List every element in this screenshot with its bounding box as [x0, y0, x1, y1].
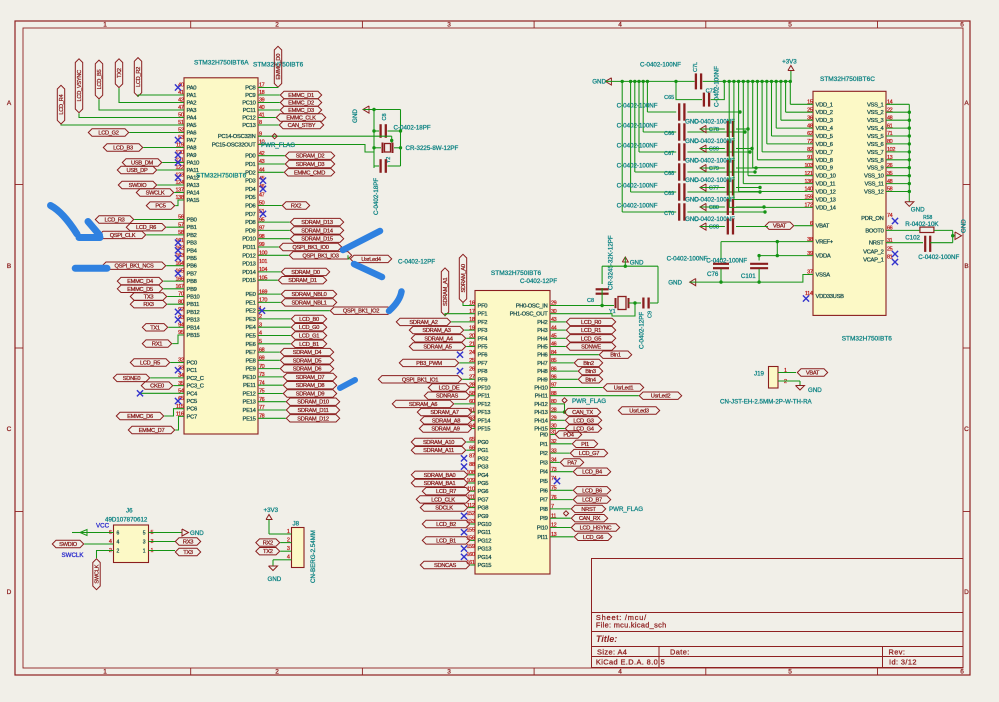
- svg-text:VSS_3: VSS_3: [867, 118, 884, 124]
- svg-text:PDR_ON: PDR_ON: [861, 216, 883, 222]
- svg-text:PI11: PI11: [537, 535, 547, 541]
- svg-text:EMMC_D2: EMMC_D2: [288, 101, 314, 107]
- svg-text:PA7: PA7: [187, 138, 197, 144]
- svg-text:3: 3: [287, 546, 290, 552]
- svg-text:A: A: [964, 100, 969, 107]
- svg-text:PA3: PA3: [187, 108, 197, 114]
- svg-text:SDRAM_A2: SDRAM_A2: [409, 320, 437, 326]
- svg-text:Btn1: Btn1: [610, 353, 621, 359]
- svg-text:PD15: PD15: [242, 278, 255, 284]
- svg-text:5: 5: [143, 531, 146, 537]
- svg-text:Y1: Y1: [609, 309, 616, 315]
- svg-text:PF4: PF4: [478, 336, 489, 342]
- svg-text:PB3_PWM: PB3_PWM: [416, 361, 442, 367]
- svg-text:GND: GND: [190, 530, 204, 537]
- svg-text:PH11: PH11: [535, 394, 548, 400]
- svg-text:PD10: PD10: [242, 237, 255, 243]
- svg-text:LCD_R5: LCD_R5: [140, 361, 160, 367]
- svg-text:PB10: PB10: [187, 295, 200, 301]
- svg-text:PA2: PA2: [187, 101, 197, 107]
- svg-text:C: C: [7, 426, 12, 433]
- svg-text:2: 2: [784, 379, 787, 385]
- svg-text:STM32H750IBT6C: STM32H750IBT6C: [820, 76, 875, 83]
- svg-text:PF6: PF6: [478, 353, 488, 359]
- svg-text:LCD_B6: LCD_B6: [582, 488, 602, 494]
- svg-text:PG14: PG14: [478, 555, 493, 561]
- svg-text:PC15-OSC32OUT: PC15-OSC32OUT: [212, 143, 257, 149]
- svg-text:VSS_1: VSS_1: [867, 102, 884, 108]
- svg-text:87: 87: [469, 454, 475, 460]
- svg-text:PF11: PF11: [478, 394, 490, 400]
- svg-text:PB7: PB7: [187, 271, 197, 277]
- svg-text:PC14-OSC32IN: PC14-OSC32IN: [218, 134, 256, 140]
- svg-text:PH1-OSC_OUT: PH1-OSC_OUT: [510, 312, 549, 318]
- svg-text:EMMC_D5: EMMC_D5: [127, 287, 153, 293]
- svg-text:PD1: PD1: [245, 162, 255, 168]
- svg-text:PA4: PA4: [187, 116, 198, 122]
- svg-text:PH0-OSC_IN: PH0-OSC_IN: [516, 304, 548, 310]
- svg-text:UsrLed4: UsrLed4: [361, 257, 381, 263]
- svg-text:PC3_C: PC3_C: [187, 384, 204, 390]
- svg-text:PD0: PD0: [245, 154, 255, 160]
- svg-text:PD14: PD14: [242, 270, 256, 276]
- svg-text:SDRAM_D6: SDRAM_D6: [293, 367, 322, 373]
- svg-text:USB_DM: USB_DM: [131, 161, 153, 167]
- svg-text:SDNWE: SDNWE: [581, 345, 601, 351]
- svg-text:PA10: PA10: [187, 161, 200, 167]
- svg-text:SDRAM_A6: SDRAM_A6: [409, 402, 437, 408]
- svg-text:LCD_B5: LCD_B5: [97, 70, 103, 90]
- svg-text:PB3: PB3: [187, 241, 197, 247]
- svg-text:KiCad E.D.A. 8.0.5: KiCad E.D.A. 8.0.5: [596, 657, 665, 666]
- svg-text:LCD_B7: LCD_B7: [582, 498, 602, 504]
- svg-text:C-0402-100NF: C-0402-100NF: [617, 163, 658, 170]
- svg-text:PG0: PG0: [478, 440, 489, 446]
- svg-text:C79: C79: [709, 166, 719, 172]
- svg-text:VSS_9: VSS_9: [867, 166, 884, 172]
- svg-text:VDD33USB: VDD33USB: [816, 294, 845, 300]
- svg-text:C9: C9: [648, 311, 654, 318]
- svg-text:CR-3225-8W-12PF: CR-3225-8W-12PF: [406, 145, 459, 152]
- svg-text:SDRAM_BA1: SDRAM_BA1: [424, 481, 456, 487]
- svg-text:2: 2: [275, 22, 279, 29]
- svg-text:49D107870612: 49D107870612: [105, 517, 148, 524]
- svg-text:PB2: PB2: [187, 233, 197, 239]
- svg-text:C68: C68: [664, 171, 674, 177]
- svg-text:PE8: PE8: [245, 358, 255, 364]
- svg-text:VDD_11: VDD_11: [816, 182, 836, 188]
- svg-text:LCD_R4: LCD_R4: [59, 95, 65, 115]
- svg-text:LCD_B1: LCD_B1: [299, 342, 319, 348]
- svg-text:PD8: PD8: [245, 220, 255, 226]
- svg-text:PH8: PH8: [537, 369, 547, 375]
- svg-text:6: 6: [117, 531, 120, 537]
- svg-text:PE7: PE7: [245, 350, 255, 356]
- svg-text:PE15: PE15: [243, 416, 256, 422]
- svg-text:Btn4: Btn4: [585, 377, 596, 383]
- svg-text:NRST: NRST: [869, 241, 884, 247]
- svg-text:PI0: PI0: [540, 433, 548, 439]
- svg-text:C-0402-100NF: C-0402-100NF: [617, 203, 658, 210]
- svg-text:PH12: PH12: [534, 402, 547, 408]
- svg-text:VSS_6: VSS_6: [867, 142, 884, 148]
- svg-text:PA14: PA14: [187, 191, 201, 197]
- svg-text:GND: GND: [808, 387, 822, 394]
- svg-text:LCD_VSYNC: LCD_VSYNC: [77, 70, 83, 102]
- svg-text:SDRAM_NBL1: SDRAM_NBL1: [292, 300, 327, 306]
- svg-text:SDRAM_A0: SDRAM_A0: [461, 264, 467, 292]
- svg-text:PI3: PI3: [540, 460, 548, 466]
- svg-text:C-0402-12PF: C-0402-12PF: [639, 312, 646, 349]
- svg-text:PE6: PE6: [245, 342, 255, 348]
- svg-text:PG4: PG4: [478, 473, 490, 479]
- svg-text:PG9: PG9: [478, 514, 489, 520]
- svg-text:SDNCAS: SDNCAS: [434, 563, 456, 569]
- svg-text:VSS_4: VSS_4: [867, 126, 885, 132]
- svg-text:PG3: PG3: [478, 465, 489, 471]
- svg-text:GND: GND: [352, 109, 359, 123]
- svg-text:CR-3245-32K-12PF: CR-3245-32K-12PF: [608, 235, 615, 290]
- svg-text:PI1: PI1: [581, 442, 589, 448]
- svg-text:PI6: PI6: [540, 488, 548, 494]
- svg-text:EMMC_D4: EMMC_D4: [127, 279, 153, 285]
- svg-text:5: 5: [788, 669, 792, 676]
- svg-text:1: 1: [103, 22, 107, 29]
- svg-text:UsrLed1: UsrLed1: [614, 386, 634, 392]
- svg-text:B: B: [964, 263, 968, 270]
- svg-text:101: 101: [259, 259, 267, 265]
- svg-text:VSS_2: VSS_2: [867, 110, 884, 116]
- svg-text:PA0: PA0: [187, 86, 197, 92]
- svg-text:PD13: PD13: [242, 262, 255, 268]
- svg-text:SDRAM_D10: SDRAM_D10: [297, 400, 329, 406]
- svg-text:PG13: PG13: [478, 547, 492, 553]
- svg-text:C-0402-100NF: C-0402-100NF: [667, 256, 708, 263]
- svg-text:QSPI_BK1_IO1: QSPI_BK1_IO1: [402, 377, 438, 383]
- svg-text:155: 155: [467, 527, 475, 533]
- svg-text:PB9: PB9: [187, 287, 197, 293]
- svg-text:3: 3: [143, 540, 146, 546]
- svg-text:C-0402-100NF: C-0402-100NF: [714, 66, 721, 107]
- svg-text:PB1: PB1: [187, 225, 197, 231]
- svg-text:LCD_CLK: LCD_CLK: [431, 497, 455, 503]
- svg-text:PB8: PB8: [187, 279, 197, 285]
- svg-text:1: 1: [143, 549, 146, 555]
- svg-text:CN-JST-EH-2.5MM-2P-W-TH-RA: CN-JST-EH-2.5MM-2P-W-TH-RA: [720, 399, 813, 406]
- svg-text:4: 4: [117, 540, 120, 546]
- svg-text:SDRAM_D4: SDRAM_D4: [293, 350, 322, 356]
- svg-text:SDCLK: SDCLK: [435, 506, 453, 512]
- svg-text:VDD_6: VDD_6: [816, 142, 833, 148]
- svg-text:TX2: TX2: [117, 68, 123, 78]
- svg-text:PD6: PD6: [245, 204, 255, 210]
- svg-text:TX3: TX3: [183, 550, 193, 556]
- svg-text:STM32H750IBT6: STM32H750IBT6: [842, 336, 893, 343]
- svg-text:GND: GND: [911, 207, 925, 214]
- svg-text:159: 159: [467, 544, 475, 550]
- svg-text:PF15: PF15: [478, 427, 491, 433]
- svg-text:PA5: PA5: [187, 123, 197, 129]
- svg-text:PE3: PE3: [245, 317, 255, 323]
- svg-text:C-0402-100NF: C-0402-100NF: [694, 216, 735, 223]
- svg-text:PF8: PF8: [478, 369, 488, 375]
- svg-text:SDRAM_D13: SDRAM_D13: [301, 220, 333, 226]
- svg-text:PWR_FLAG: PWR_FLAG: [261, 142, 295, 149]
- svg-text:VCC: VCC: [96, 523, 110, 530]
- svg-text:PF13: PF13: [478, 410, 491, 416]
- svg-text:LCD_G1: LCD_G1: [299, 334, 319, 340]
- svg-text:PI9: PI9: [540, 516, 548, 522]
- svg-text:LCD_G6: LCD_G6: [583, 535, 603, 541]
- svg-text:Date:: Date:: [670, 648, 690, 657]
- svg-text:TX2: TX2: [263, 549, 273, 555]
- svg-text:GND: GND: [668, 279, 682, 286]
- svg-text:D: D: [964, 589, 969, 596]
- svg-text:LCD_R2: LCD_R2: [136, 67, 142, 87]
- svg-text:PF2: PF2: [478, 320, 488, 326]
- svg-text:QSPI_BK1_NCS: QSPI_BK1_NCS: [114, 264, 154, 270]
- svg-text:VSS_12: VSS_12: [864, 190, 884, 196]
- svg-text:PI8: PI8: [540, 507, 548, 513]
- svg-text:PE9: PE9: [245, 367, 255, 373]
- svg-text:VCAP_2: VCAP_2: [863, 250, 884, 256]
- svg-text:VDD_4: VDD_4: [816, 126, 834, 132]
- svg-text:C98: C98: [709, 225, 719, 231]
- svg-text:SDRAM_A5: SDRAM_A5: [423, 345, 451, 351]
- svg-text:PF10: PF10: [478, 386, 491, 392]
- svg-text:PA9: PA9: [187, 153, 197, 159]
- svg-text:RX3: RX3: [183, 540, 193, 546]
- svg-text:C-0402-100NF: C-0402-100NF: [617, 123, 658, 130]
- svg-text:QSPI_CLK: QSPI_CLK: [110, 233, 136, 239]
- svg-text:PC10: PC10: [242, 101, 255, 107]
- svg-text:C-0402-18PF: C-0402-18PF: [394, 125, 431, 132]
- svg-text:RX3: RX3: [143, 302, 153, 308]
- svg-text:SWCLK: SWCLK: [95, 564, 101, 583]
- svg-text:VDDA: VDDA: [816, 254, 831, 260]
- svg-text:PF14: PF14: [478, 418, 492, 424]
- svg-text:C78: C78: [709, 127, 719, 133]
- svg-text:C99: C99: [709, 147, 719, 153]
- svg-text:LCD_B0: LCD_B0: [299, 317, 319, 323]
- svg-text:VDD_3: VDD_3: [816, 118, 833, 124]
- svg-text:EMMC_D6: EMMC_D6: [127, 414, 153, 420]
- svg-text:C8: C8: [382, 113, 388, 120]
- svg-text:SDRAM_D3: SDRAM_D3: [296, 162, 325, 168]
- svg-text:PF3: PF3: [478, 328, 488, 334]
- svg-text:C67: C67: [664, 151, 674, 157]
- svg-text:88: 88: [469, 462, 475, 468]
- svg-text:PF9: PF9: [478, 377, 488, 383]
- svg-text:6: 6: [960, 22, 964, 29]
- svg-text:SDRAM_A1: SDRAM_A1: [443, 278, 449, 306]
- svg-text:PE2: PE2: [245, 309, 255, 315]
- svg-text:PI5: PI5: [540, 479, 548, 485]
- svg-text:PC5: PC5: [187, 399, 197, 405]
- svg-text:QSPI_BK1_IO3: QSPI_BK1_IO3: [302, 253, 338, 259]
- svg-text:2: 2: [117, 549, 120, 555]
- svg-text:26: 26: [469, 366, 475, 372]
- svg-text:+3V3: +3V3: [782, 59, 797, 66]
- svg-text:SDRAM_NBL0: SDRAM_NBL0: [292, 292, 327, 298]
- svg-text:SDRAM_D8: SDRAM_D8: [296, 383, 325, 389]
- svg-text:QSPI_BK1_IO2: QSPI_BK1_IO2: [343, 309, 379, 315]
- svg-text:PA13: PA13: [187, 183, 200, 189]
- svg-text:C-0402-100NF: C-0402-100NF: [918, 254, 959, 261]
- svg-text:SDRAM_D15: SDRAM_D15: [301, 237, 333, 243]
- svg-text:STM32H750IBT6: STM32H750IBT6: [196, 173, 247, 180]
- svg-text:C80: C80: [709, 205, 719, 211]
- svg-text:PF7: PF7: [478, 361, 488, 367]
- svg-text:SDRAM_A11: SDRAM_A11: [423, 448, 454, 454]
- svg-text:C-0402-12PF: C-0402-12PF: [398, 259, 435, 266]
- svg-text:PD4: PD4: [563, 433, 573, 439]
- svg-text:PG15: PG15: [478, 563, 492, 569]
- svg-text:25: 25: [887, 247, 893, 253]
- svg-text:LCD_R7: LCD_R7: [436, 489, 456, 495]
- svg-text:5: 5: [788, 22, 792, 29]
- svg-text:PC2_C: PC2_C: [187, 376, 204, 382]
- svg-text:SDRAM_A10: SDRAM_A10: [423, 440, 454, 446]
- svg-text:PI10: PI10: [537, 526, 548, 532]
- svg-text:VDD_10: VDD_10: [816, 174, 836, 180]
- svg-text:PG12: PG12: [478, 538, 492, 544]
- svg-text:C65: C65: [664, 95, 674, 101]
- svg-text:4: 4: [287, 555, 290, 561]
- svg-text:4: 4: [618, 669, 622, 676]
- svg-text:1: 1: [784, 368, 787, 374]
- svg-text:PC1: PC1: [187, 368, 197, 374]
- svg-text:PE13: PE13: [243, 400, 256, 406]
- svg-text:SDRAM_A8: SDRAM_A8: [432, 418, 460, 424]
- svg-text:2: 2: [275, 669, 279, 676]
- svg-text:VSS_11: VSS_11: [864, 182, 883, 188]
- svg-text:C70: C70: [664, 211, 674, 217]
- svg-text:+3V3: +3V3: [264, 507, 279, 514]
- svg-text:SWCLK: SWCLK: [62, 552, 85, 559]
- svg-text:PH9: PH9: [537, 377, 547, 383]
- svg-text:EMMC_CMD: EMMC_CMD: [294, 170, 325, 176]
- svg-text:VDD_5: VDD_5: [816, 134, 833, 140]
- svg-text:VDD_9: VDD_9: [816, 166, 833, 172]
- svg-text:PH6: PH6: [537, 353, 547, 359]
- svg-text:VREF+: VREF+: [816, 240, 834, 246]
- svg-text:SDRAM_D14: SDRAM_D14: [301, 228, 333, 234]
- svg-text:TX1: TX1: [150, 325, 160, 331]
- svg-text:LCD_B4: LCD_B4: [582, 470, 602, 476]
- svg-text:PG6: PG6: [478, 489, 489, 495]
- svg-text:SDRAM_D2: SDRAM_D2: [296, 154, 325, 160]
- svg-text:PE5: PE5: [245, 334, 255, 340]
- svg-text:PC9: PC9: [245, 93, 255, 99]
- svg-text:VDD_7: VDD_7: [816, 150, 833, 156]
- svg-text:PC7: PC7: [187, 414, 197, 420]
- svg-text:24: 24: [469, 350, 475, 356]
- svg-text:PE12: PE12: [243, 392, 256, 398]
- svg-text:C7L: C7L: [693, 62, 699, 72]
- svg-text:VSS_7: VSS_7: [867, 150, 884, 156]
- svg-text:VCAP_1: VCAP_1: [863, 258, 884, 264]
- svg-text:PF5: PF5: [478, 345, 488, 351]
- svg-text:PA8: PA8: [187, 146, 197, 152]
- svg-text:VDD_14: VDD_14: [816, 205, 837, 211]
- svg-text:D: D: [7, 589, 12, 596]
- svg-text:PD12: PD12: [242, 253, 255, 259]
- svg-text:PG5: PG5: [478, 481, 489, 487]
- svg-text:CAN_TX: CAN_TX: [572, 410, 593, 416]
- svg-text:A: A: [7, 100, 12, 107]
- svg-text:LCD_R3: LCD_R3: [104, 218, 124, 224]
- svg-text:6: 6: [960, 669, 964, 676]
- svg-text:B: B: [7, 263, 11, 270]
- svg-text:1: 1: [287, 529, 290, 535]
- svg-text:GND: GND: [268, 576, 282, 583]
- svg-text:SDRAM_A9: SDRAM_A9: [431, 427, 459, 433]
- svg-text:J6: J6: [126, 508, 133, 515]
- svg-text:PD4: PD4: [245, 187, 256, 193]
- svg-text:PG7: PG7: [478, 497, 489, 503]
- svg-text:C-0402-100NF: C-0402-100NF: [706, 258, 747, 265]
- svg-text:PH7: PH7: [537, 361, 547, 367]
- svg-text:VDD_12: VDD_12: [816, 190, 836, 196]
- svg-text:C: C: [964, 426, 969, 433]
- svg-text:PE4: PE4: [245, 325, 256, 331]
- svg-text:VBAT: VBAT: [816, 224, 830, 230]
- svg-text:C-0402-100NF: C-0402-100NF: [640, 62, 681, 69]
- svg-text:Btn3: Btn3: [585, 369, 596, 375]
- svg-text:EMMC_D7: EMMC_D7: [139, 428, 165, 434]
- svg-text:J19: J19: [754, 371, 765, 378]
- svg-text:Rev:: Rev:: [889, 648, 906, 657]
- svg-text:PA6: PA6: [187, 131, 197, 137]
- svg-text:PA1: PA1: [187, 93, 197, 99]
- svg-text:SDRAM_D5: SDRAM_D5: [293, 358, 322, 364]
- svg-text:C102: C102: [905, 235, 920, 242]
- svg-text:Size: A4: Size: A4: [597, 648, 627, 657]
- svg-text:Title:: Title:: [596, 634, 617, 644]
- svg-text:C-0402-100NF: C-0402-100NF: [617, 183, 658, 190]
- svg-text:File: mcu.kicad_sch: File: mcu.kicad_sch: [596, 620, 667, 629]
- svg-text:UsrLed2: UsrLed2: [651, 394, 671, 400]
- svg-text:PD7: PD7: [245, 212, 255, 218]
- svg-text:PC0: PC0: [187, 361, 197, 367]
- svg-text:PA7: PA7: [567, 460, 577, 466]
- svg-text:PC4: PC4: [187, 391, 198, 397]
- svg-text:PD5: PD5: [245, 195, 255, 201]
- svg-text:SDRAM_A3: SDRAM_A3: [422, 328, 450, 334]
- svg-text:PG10: PG10: [478, 522, 492, 528]
- svg-text:VDD_13: VDD_13: [816, 198, 836, 204]
- svg-text:PB12: PB12: [187, 310, 200, 316]
- svg-text:PI4: PI4: [540, 470, 549, 476]
- svg-text:PC11: PC11: [243, 108, 256, 114]
- svg-text:PC6: PC6: [187, 407, 197, 413]
- svg-text:SWDIO: SWDIO: [129, 183, 148, 189]
- svg-text:PF0: PF0: [478, 304, 488, 310]
- svg-text:STM32H750IBT6: STM32H750IBT6: [491, 270, 542, 277]
- svg-text:LCD_G3: LCD_G3: [573, 418, 593, 424]
- svg-text:3: 3: [447, 22, 451, 29]
- svg-text:VSS_8: VSS_8: [867, 158, 884, 164]
- svg-text:C72: C72: [706, 89, 716, 95]
- svg-text:SDRAM_D0: SDRAM_D0: [291, 270, 320, 276]
- svg-text:SDRAM_BA0: SDRAM_BA0: [424, 473, 456, 479]
- svg-text:CAN_STBY: CAN_STBY: [288, 123, 316, 129]
- svg-text:LCD_G5: LCD_G5: [581, 336, 601, 342]
- svg-text:PB6: PB6: [187, 264, 197, 270]
- svg-text:GND: GND: [961, 219, 968, 233]
- svg-text:PC5: PC5: [155, 204, 165, 210]
